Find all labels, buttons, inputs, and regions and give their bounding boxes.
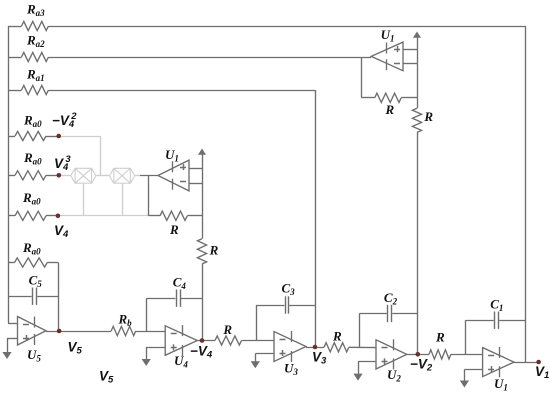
svg-text:R: R	[332, 329, 342, 344]
svg-text:R: R	[209, 243, 219, 258]
svg-text:R: R	[169, 222, 179, 237]
svg-text:R: R	[222, 322, 232, 337]
svg-text:−V42: −V42	[52, 111, 77, 130]
svg-text:R: R	[385, 102, 395, 117]
svg-text:R: R	[435, 330, 445, 345]
svg-text:R: R	[423, 109, 433, 124]
